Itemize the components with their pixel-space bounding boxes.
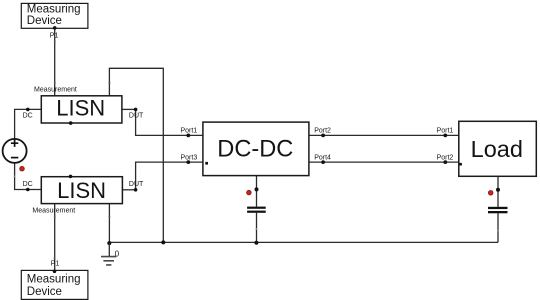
wire DC-DC Port2 to Load Port1 [309, 134, 459, 136]
wire DUT U1 to DC-DC Port1 [136, 109, 203, 135]
wire DUT U1 pin stub [122, 108, 136, 110]
capacitor C2 [488, 207, 508, 232]
wire LISN U2 bottom to ground [108, 204, 110, 243]
node Port4 of DC-DC [314, 154, 331, 164]
pin P1 of M2 [51, 260, 60, 273]
pin DUT of U1 [129, 108, 144, 120]
svg-text:Port4: Port4 [314, 154, 331, 161]
node junction ground bus / loop wire [161, 240, 165, 244]
wire Load bottom to capacitor C2 [497, 176, 499, 242]
svg-text:DUT: DUT [129, 181, 144, 188]
svg-text:Port3: Port3 [181, 154, 198, 161]
wire LISN U2 Measurement to M2.P1 [54, 204, 56, 271]
label Measurement of U1 [34, 86, 77, 93]
node Port1 of DC-DC [181, 128, 198, 138]
node Port1 of Load [437, 128, 454, 138]
wire V1 minus to LISN U2 DC [15, 163, 42, 190]
pin tick below V1 [14, 176, 16, 178]
pin stub ticks LISN U1 top [54, 82, 110, 84]
svg-text:Device: Device [27, 286, 62, 298]
node on C1 wire [255, 187, 259, 191]
svg-text:Measurement: Measurement [34, 86, 77, 93]
pin DC of U2 [23, 181, 33, 191]
svg-text:Measuring: Measuring [27, 274, 81, 286]
svg-text:Port2: Port2 [314, 128, 331, 135]
orientation square of X2 [459, 163, 462, 166]
wire ground bus [109, 241, 498, 243]
svg-text:DC: DC [23, 181, 33, 188]
svg-text:DUT: DUT [129, 113, 144, 120]
pin stub tick M2 P1 [54, 258, 56, 260]
svg-text:Port1: Port1 [181, 128, 198, 135]
pin DC of U1 [23, 108, 33, 120]
LISN U2 [41, 177, 122, 204]
pin stub tick M1 P1 [54, 40, 56, 42]
svg-text:Measurement: Measurement [32, 208, 75, 215]
node Port3 of DC-DC [181, 154, 198, 164]
probe marker red near V1 [20, 166, 25, 171]
wire V1 plus to LISN U1 DC [15, 109, 42, 139]
probe marker red near C1 [247, 190, 252, 195]
node on C2 wire [496, 188, 500, 192]
node junction ground bus / C1 [254, 241, 258, 245]
probe marker red near C2 [488, 191, 493, 196]
svg-text:P1: P1 [50, 32, 59, 39]
node junction ground bus / LISN U2 [107, 241, 111, 245]
svg-text:Measuring: Measuring [27, 4, 81, 16]
svg-text:LISN: LISN [56, 95, 105, 120]
wire DUT U2 pin stub [122, 189, 135, 191]
wire DC-DC bottom to capacitor C1 [256, 176, 258, 243]
capacitor C1 [247, 207, 266, 230]
svg-text:Port2: Port2 [437, 154, 454, 161]
measuring device M1 [21, 3, 88, 28]
dc source V1 [3, 139, 27, 163]
wire M1.P1 to LISN U1 Measurement [54, 28, 56, 96]
ground symbol node 0 [101, 243, 120, 265]
pin DUT of U2 [129, 181, 144, 192]
svg-text:Device: Device [27, 15, 62, 27]
LISN U1 [41, 95, 122, 123]
label Measurement of U2 [32, 208, 75, 215]
svg-text:Load: Load [471, 136, 523, 162]
load X2 [459, 121, 537, 176]
measuring device M2 [21, 270, 88, 299]
DC-DC converter X1 [203, 122, 309, 176]
svg-text:P1: P1 [51, 260, 60, 267]
node Port2 of DC-DC [314, 128, 331, 138]
pin stub ticks LISN U2 bottom [54, 216, 110, 218]
wire DUT U2 to DC-DC Port3 [136, 162, 203, 190]
svg-text:DC: DC [23, 112, 33, 119]
svg-text:DC-DC: DC-DC [217, 137, 293, 163]
pin top of U2 [69, 175, 73, 179]
node Port2 of Load [437, 154, 454, 164]
pin P1 of M1 [50, 26, 59, 39]
svg-text:0: 0 [115, 249, 120, 258]
pin bottom of U1 [69, 121, 73, 125]
wire DC-DC Port4 to Load Port2 [309, 161, 459, 163]
svg-text:LISN: LISN [57, 178, 106, 203]
wire LISN U1 top to ground bus (loop) [109, 68, 163, 242]
svg-text:Port1: Port1 [437, 128, 454, 135]
orientation square of X1 [205, 162, 208, 165]
